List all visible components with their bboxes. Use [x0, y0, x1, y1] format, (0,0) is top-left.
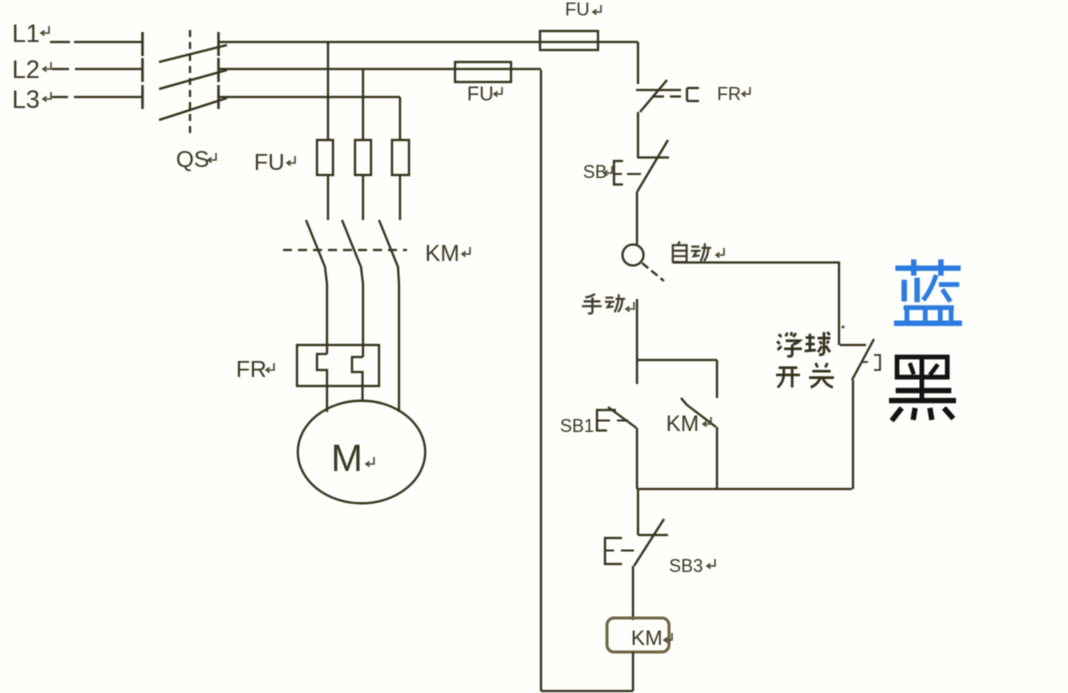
switch QS left ticks [141, 32, 144, 109]
wire SB to selector [636, 192, 638, 244]
svg-text:L1: L1 [12, 20, 40, 48]
wire to SB1 [636, 360, 638, 384]
speck dot [842, 326, 845, 329]
wire corner down [637, 42, 639, 84]
contactor KM dashed linkage [283, 249, 407, 251]
contact KM aux blade [681, 398, 716, 427]
node L3 label [12, 86, 40, 114]
switch QS dashed linkage [189, 30, 191, 134]
svg-text:KM: KM [425, 240, 460, 266]
wire drop phase3 [399, 97, 401, 140]
wire drop phase1 [327, 42, 329, 140]
svg-text:L2: L2 [12, 56, 40, 84]
svg-text:KM: KM [666, 411, 699, 436]
contact FR label [717, 84, 741, 104]
node L1 label [12, 20, 40, 48]
float switch bracket [862, 355, 880, 370]
wire FR to SB [637, 112, 639, 157]
contact FR normally-closed [636, 89, 681, 91]
pushbutton SB normally-closed [637, 156, 669, 158]
selector handle dash-dot [642, 263, 664, 281]
wire fuse3 to KM [399, 175, 401, 220]
svg-text:SB3: SB3 [669, 556, 703, 576]
switch QS label [176, 146, 209, 172]
wire fuse1 to KM [327, 175, 329, 220]
fuse FU control top label [565, 0, 590, 20]
node L2 label [12, 56, 40, 84]
text black 黑 [889, 357, 956, 421]
label 浮球 float [777, 332, 830, 356]
thermal relay FR heater jog 2 [352, 357, 363, 402]
fuse FU label [254, 149, 285, 175]
svg-text:M: M [331, 438, 363, 480]
motor M circle [298, 401, 425, 504]
pushbutton SB3 normally-closed [638, 534, 668, 536]
text blue 蓝 [894, 259, 962, 323]
svg-text:FR: FR [717, 84, 741, 104]
wire bottom return [541, 690, 633, 692]
wire left rail [540, 70, 542, 691]
wire KM1 to FR [326, 284, 328, 354]
svg-text:KM: KM [631, 627, 663, 650]
pushbutton SB label [583, 162, 607, 182]
wire bottom branch join [637, 488, 852, 490]
svg-text:SB: SB [583, 162, 607, 182]
fuse FU phase3 [392, 140, 409, 175]
wire KM aux down [716, 427, 718, 489]
wire coil down [632, 652, 634, 691]
coil KM label [631, 627, 663, 650]
wire auto branch [673, 263, 839, 346]
svg-text:FU: FU [565, 0, 590, 20]
svg-text:FU: FU [254, 149, 285, 175]
svg-text:FU: FU [467, 84, 494, 106]
contactor KM label [425, 240, 460, 266]
svg-text:L3: L3 [12, 86, 40, 114]
wire to KM aux [716, 360, 718, 398]
pushbutton SB1 label [560, 416, 594, 436]
wire L1 in [50, 41, 142, 43]
contact KM aux label [666, 411, 699, 436]
wire KM2 to FR [362, 284, 364, 357]
wire fuse2 to KM [362, 175, 364, 220]
selector switch pivot circle [623, 245, 644, 266]
wire drop phase2 [362, 69, 364, 140]
pushbutton SB1 normally-open [597, 410, 616, 431]
switch QS right ticks [217, 32, 220, 109]
wire branch split [637, 359, 717, 361]
fuse FU phase2 [355, 140, 371, 175]
wire to SB3 [637, 489, 639, 535]
svg-text:QS: QS [176, 146, 209, 172]
fuse FU control top [540, 31, 598, 50]
wire SB3 to coil [632, 566, 634, 620]
thermal relay FR box [297, 345, 379, 386]
wire SB1 down [636, 428, 638, 489]
fuse FU phase1 [317, 140, 333, 175]
wire L3 bus [218, 96, 400, 98]
svg-text:SB1: SB1 [560, 416, 594, 436]
label 自动 auto [673, 241, 711, 262]
fuse FU control second [455, 62, 511, 82]
thermal relay FR heater jog 1 [317, 354, 327, 412]
pushbutton SB3 label [669, 556, 703, 576]
wire L2 bus through fuse [218, 68, 541, 70]
wire manual branch [636, 299, 638, 360]
switch QS blades [159, 45, 227, 120]
wire float switch down [852, 380, 854, 489]
float switch blade [852, 339, 874, 380]
fuse FU control second label [467, 84, 494, 106]
motor M label [331, 438, 363, 480]
contactor KM main blades [306, 220, 399, 284]
svg-text:FR: FR [236, 356, 267, 382]
label 开关 switch [776, 363, 834, 387]
wire L2 in [52, 68, 142, 70]
label 手动 manual [582, 294, 625, 314]
wire L1 bus through fuse [218, 41, 638, 43]
coil KM rounded box [607, 618, 669, 652]
wire L3 in [52, 96, 142, 98]
float switch upper tick [840, 344, 866, 346]
wire KM3 to motor [398, 284, 400, 412]
thermal relay FR label [236, 356, 267, 382]
